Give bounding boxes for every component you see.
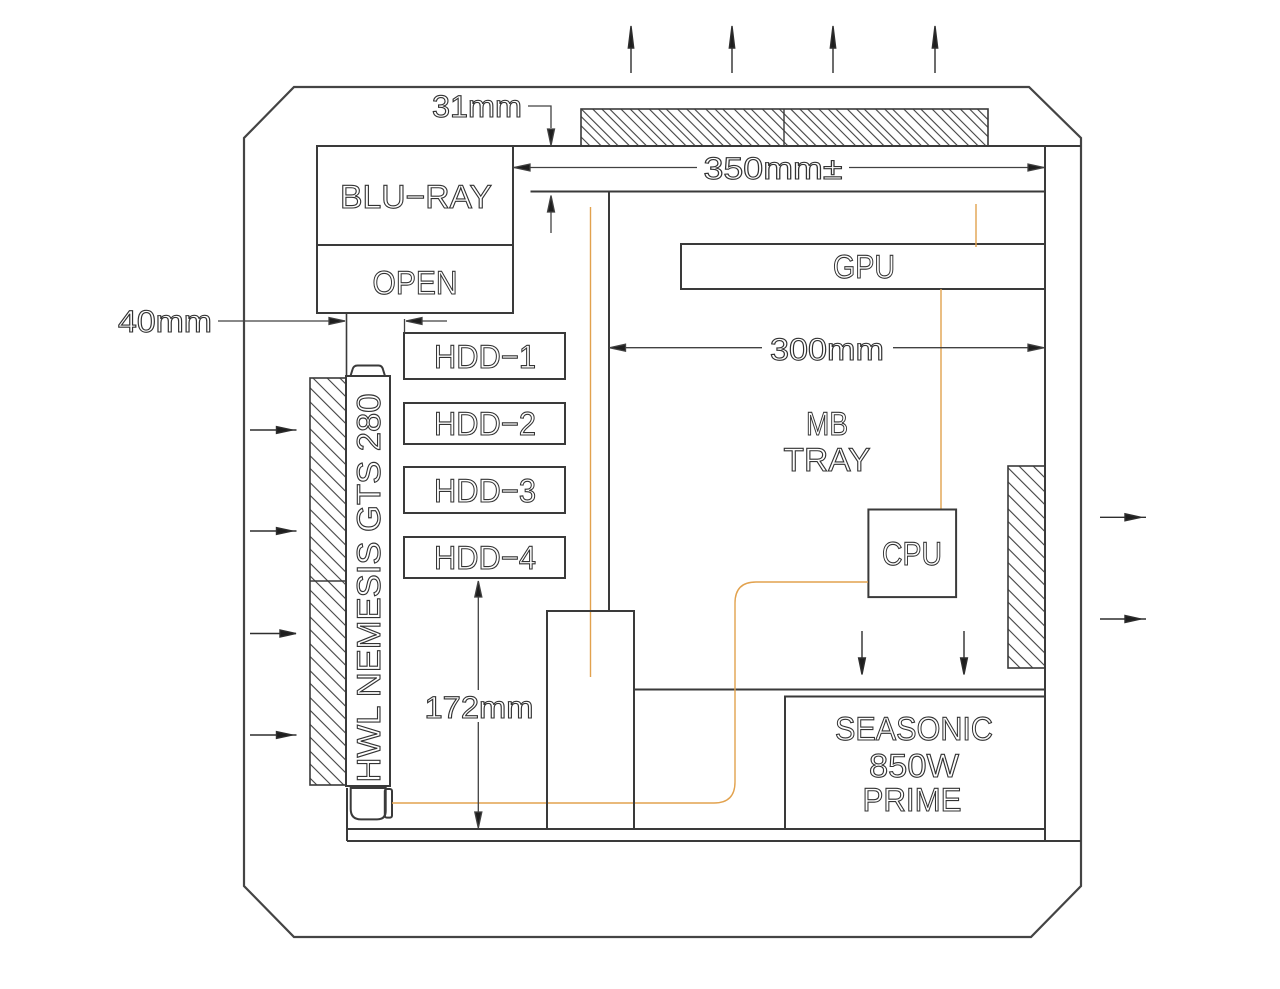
mb tray top line	[531, 191, 1046, 193]
hdd bay 2	[404, 403, 565, 444]
svg-text:MB: MB	[806, 405, 848, 442]
dimension 31mm leader and arrows	[528, 106, 555, 233]
case inner top wall	[317, 145, 1081, 147]
svg-text:40mm: 40mm	[118, 304, 212, 339]
svg-text:OPEN: OPEN	[373, 264, 458, 301]
left intake arrow 3	[250, 630, 296, 637]
psu box	[785, 697, 1045, 830]
svg-text:172mm: 172mm	[425, 690, 534, 725]
left intake arrow 2	[250, 528, 297, 535]
dimension 40mm right arrow	[405, 318, 448, 335]
case inner right wall	[1044, 146, 1046, 841]
svg-text:GPU: GPU	[833, 248, 895, 285]
gpu power cable stub orange	[975, 204, 977, 247]
svg-text:HDD−4: HDD−4	[434, 539, 536, 576]
svg-text:HDD−1: HDD−1	[434, 338, 536, 375]
svg-text:TRAY: TRAY	[784, 441, 871, 478]
pump to cpu cable orange	[392, 582, 868, 803]
rear exhaust hatched bar	[1008, 466, 1045, 668]
svg-text:850W: 850W	[869, 747, 960, 784]
radiator hatched bar left	[310, 378, 346, 785]
hdd bay 1	[404, 333, 565, 379]
rear exhaust arrow 2	[1100, 616, 1146, 623]
mb tray bottom line	[634, 689, 1045, 691]
top airflow arrow 4	[932, 26, 937, 73]
rear exhaust arrow 1	[1100, 514, 1146, 521]
case floor top line	[347, 828, 1045, 830]
mb tray left wall	[608, 192, 610, 612]
svg-text:31mm: 31mm	[432, 89, 522, 124]
left intake arrow 4	[250, 732, 297, 739]
svg-text:HDD−2: HDD−2	[434, 405, 536, 442]
dimension 172mm line	[475, 581, 482, 828]
psu intake arrow 2	[961, 631, 968, 675]
gpu to cpu cable orange	[940, 289, 942, 509]
gpu box	[681, 244, 1045, 289]
psu intake arrow 1	[859, 631, 866, 675]
hdd bay 4	[404, 537, 565, 578]
svg-text:300mm: 300mm	[770, 332, 884, 367]
svg-text:SEASONIC: SEASONIC	[835, 710, 993, 747]
fan body hwl nemesis	[346, 366, 390, 787]
svg-text:BLU−RAY: BLU−RAY	[340, 178, 492, 215]
dimension 350mm line	[514, 164, 1044, 171]
dimension 40mm left arrow	[218, 318, 345, 325]
svg-text:HDD−3: HDD−3	[434, 472, 536, 509]
riser cable orange	[590, 207, 592, 677]
svg-text:PRIME: PRIME	[863, 781, 962, 818]
svg-text:350mm±: 350mm±	[704, 151, 843, 186]
top exhaust vent hatched bar	[581, 109, 988, 146]
fan duct left edge below open box	[346, 313, 348, 377]
svg-text:HWL NEMESIS GTS 280: HWL NEMESIS GTS 280	[350, 394, 387, 783]
reservoir tower	[547, 611, 634, 829]
case floor left edge	[346, 788, 348, 841]
case outer shell octagon	[244, 87, 1081, 937]
top airflow arrow 2	[729, 26, 734, 73]
left intake arrow 1	[250, 427, 297, 434]
svg-text:CPU: CPU	[882, 535, 942, 572]
case inner bottom wall	[347, 840, 1081, 842]
top airflow arrow 1	[628, 26, 633, 73]
blu-ray drive bay box	[317, 146, 513, 313]
pump body	[351, 788, 392, 819]
hdd bay 3	[404, 467, 565, 513]
dimension 300mm line	[610, 344, 1045, 351]
cpu box	[868, 510, 956, 598]
top airflow arrow 3	[830, 26, 835, 73]
